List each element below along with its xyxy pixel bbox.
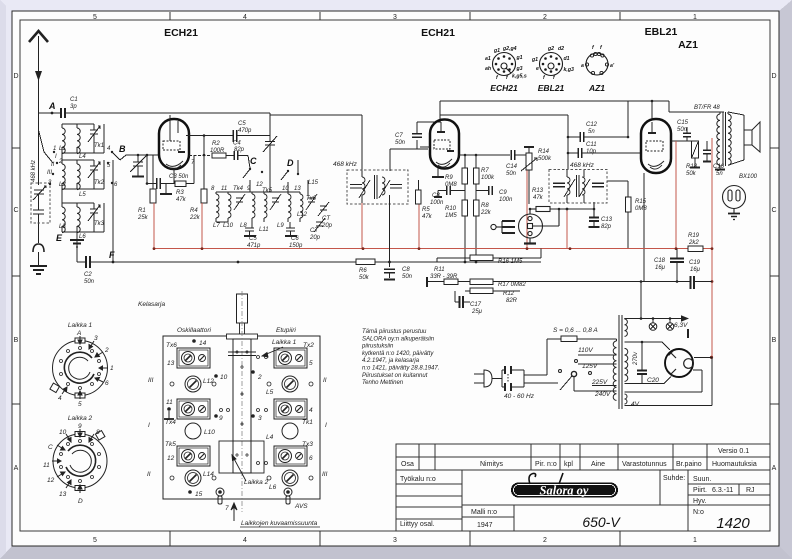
svg-text:kytkentä n:o 1420, päivätty: kytkentä n:o 1420, päivätty (362, 351, 434, 357)
svg-text:468 kHz: 468 kHz (31, 160, 37, 182)
svg-text:4: 4 (243, 537, 247, 544)
svg-text:3: 3 (258, 415, 262, 422)
svg-text:6,3V: 6,3V (674, 322, 688, 329)
svg-text:L9: L9 (277, 223, 284, 229)
svg-text:9: 9 (78, 423, 82, 430)
svg-text:3: 3 (94, 335, 98, 342)
svg-text:A: A (772, 465, 777, 472)
svg-text:5: 5 (93, 537, 97, 544)
svg-text:L14: L14 (203, 471, 214, 478)
svg-text:R4: R4 (190, 208, 198, 214)
svg-text:C5: C5 (249, 236, 257, 242)
svg-text:1947: 1947 (477, 522, 493, 529)
svg-text:II: II (51, 162, 55, 168)
svg-text:II: II (323, 377, 327, 384)
svg-text:k,g3: k,g3 (564, 67, 574, 73)
svg-text:Nimitys: Nimitys (480, 461, 503, 468)
svg-text:25μ: 25μ (471, 309, 483, 315)
svg-text:15: 15 (195, 491, 203, 498)
svg-text:C9: C9 (499, 190, 507, 196)
svg-text:L5: L5 (79, 192, 86, 198)
svg-text:R19: R19 (688, 233, 700, 239)
svg-text:Piirustukset on kuitannut: Piirustukset on kuitannut (362, 373, 428, 379)
svg-text:B: B (14, 337, 19, 344)
svg-text:4.2.1947, ja kelasarja: 4.2.1947, ja kelasarja (362, 358, 420, 364)
svg-text:1M5: 1M5 (445, 213, 457, 219)
svg-text:14: 14 (199, 340, 207, 347)
svg-text:L6: L6 (79, 234, 86, 240)
svg-text:5n: 5n (716, 171, 723, 177)
svg-text:2: 2 (543, 537, 547, 544)
svg-text:40 - 60 Hz: 40 - 60 Hz (504, 393, 535, 400)
svg-text:A: A (48, 101, 56, 111)
svg-text:L4: L4 (266, 434, 274, 441)
svg-text:III: III (47, 170, 52, 176)
svg-text:10: 10 (59, 429, 67, 436)
svg-text:L4: L4 (79, 154, 86, 160)
svg-text:10: 10 (220, 374, 228, 381)
svg-text:C2: C2 (84, 272, 92, 278)
svg-text:5: 5 (309, 360, 313, 367)
svg-text:g2,g4: g2,g4 (502, 46, 517, 52)
svg-text:L1: L1 (59, 146, 66, 152)
svg-text:R9: R9 (445, 175, 453, 181)
svg-text:C16: C16 (713, 164, 725, 170)
svg-text:BX100: BX100 (739, 174, 758, 180)
svg-text:g1: g1 (493, 48, 500, 54)
svg-text:C7: C7 (395, 133, 403, 139)
svg-text:225V: 225V (591, 379, 608, 386)
svg-text:CT: CT (322, 216, 331, 222)
svg-text:1: 1 (53, 146, 56, 152)
svg-text:Varastotunnus: Varastotunnus (622, 461, 667, 468)
svg-text:Oskillaattori: Oskillaattori (177, 327, 212, 334)
svg-text:Laikka 1: Laikka 1 (68, 322, 93, 329)
svg-text:C12: C12 (586, 122, 598, 128)
svg-text:R8: R8 (481, 203, 489, 209)
svg-text:3p: 3p (70, 104, 77, 110)
svg-text:C13: C13 (601, 217, 613, 223)
svg-text:47k: 47k (533, 195, 544, 201)
svg-text:468 kHz: 468 kHz (333, 161, 358, 168)
svg-text:C3 50n: C3 50n (169, 174, 189, 180)
svg-text:C11: C11 (586, 142, 597, 148)
svg-text:Tk1: Tk1 (302, 419, 313, 426)
svg-text:R18: R18 (686, 164, 698, 170)
svg-text:R2: R2 (212, 141, 220, 147)
svg-text:R17 0M82: R17 0M82 (498, 282, 526, 288)
svg-text:R7: R7 (481, 168, 489, 174)
svg-text:4: 4 (58, 395, 62, 402)
svg-text:0M8: 0M8 (635, 206, 647, 212)
svg-text:Suhde:: Suhde: (663, 475, 685, 482)
svg-text:d2: d2 (558, 46, 564, 52)
svg-text:III: III (322, 471, 328, 478)
svg-text:Tx4: Tx4 (165, 419, 176, 426)
svg-text:BT/FR 48: BT/FR 48 (694, 105, 720, 111)
svg-text:2: 2 (257, 374, 262, 381)
svg-text:82p: 82p (601, 224, 612, 230)
svg-text:240V: 240V (594, 391, 611, 398)
svg-text:AVS: AVS (294, 503, 308, 510)
svg-text:12: 12 (47, 477, 55, 484)
svg-text:11: 11 (166, 399, 173, 406)
svg-text:2k2: 2k2 (688, 240, 699, 246)
svg-text:C8: C8 (432, 193, 440, 199)
svg-text:AZ1: AZ1 (678, 39, 698, 51)
svg-text:82p: 82p (234, 147, 245, 153)
svg-text:33R - 39R: 33R - 39R (430, 274, 458, 280)
svg-text:Tx3: Tx3 (302, 441, 313, 448)
svg-text:Tk4: Tk4 (233, 186, 244, 192)
svg-text:ECH21: ECH21 (490, 83, 518, 93)
svg-text:Piirt.: Piirt. (693, 487, 707, 494)
svg-text:D: D (78, 498, 83, 505)
svg-text:d1: d1 (564, 56, 570, 62)
svg-text:C: C (771, 207, 776, 214)
svg-text:B: B (772, 337, 777, 344)
svg-text:13: 13 (59, 491, 67, 498)
svg-text:R10: R10 (445, 206, 457, 212)
svg-text:110V: 110V (578, 347, 593, 354)
svg-text:100n: 100n (499, 197, 513, 203)
svg-text:F: F (109, 250, 115, 260)
svg-text:Työkalu n:o: Työkalu n:o (400, 476, 436, 483)
svg-text:Tk2: Tk2 (94, 180, 105, 186)
svg-text:C: C (250, 156, 257, 166)
svg-text:8: 8 (96, 429, 100, 436)
svg-text:I: I (148, 422, 150, 429)
svg-text:Tk3: Tk3 (94, 221, 105, 227)
svg-text:50n: 50n (402, 274, 413, 280)
svg-text:16μ: 16μ (690, 267, 701, 273)
svg-text:C17: C17 (470, 302, 482, 308)
svg-text:50n: 50n (506, 171, 517, 177)
svg-text:50n: 50n (395, 140, 406, 146)
svg-text:6: 6 (105, 380, 109, 387)
svg-text:82R: 82R (506, 298, 518, 304)
svg-text:g1: g1 (516, 55, 523, 61)
svg-text:SALORA oy:n alkuperäisiin: SALORA oy:n alkuperäisiin (362, 336, 435, 342)
svg-text:270v: 270v (633, 351, 639, 366)
svg-text:7: 7 (225, 505, 229, 512)
svg-text:g2: g2 (547, 46, 554, 52)
svg-text:6.3.-11: 6.3.-11 (712, 487, 733, 494)
svg-text:R16 1M5: R16 1M5 (498, 259, 523, 265)
svg-text:500k: 500k (538, 156, 552, 162)
svg-text:20p: 20p (309, 235, 321, 241)
svg-text:Laikka 2: Laikka 2 (68, 415, 93, 422)
svg-text:13: 13 (167, 360, 175, 367)
svg-text:50k: 50k (686, 171, 697, 177)
svg-text:100k: 100k (481, 175, 495, 181)
svg-text:L2: L2 (59, 182, 66, 188)
svg-text:100R: 100R (210, 148, 225, 154)
svg-text:EBL21: EBL21 (645, 26, 678, 38)
svg-text:1: 1 (693, 14, 697, 21)
svg-text:4: 4 (309, 407, 313, 414)
svg-text:10p: 10p (586, 149, 597, 155)
svg-text:R15: R15 (635, 199, 647, 205)
svg-text:g3: g3 (516, 66, 523, 72)
svg-text:N:o: N:o (693, 509, 704, 516)
svg-text:R6: R6 (359, 268, 367, 274)
svg-text:5: 5 (93, 14, 97, 21)
svg-text:C1: C1 (70, 97, 78, 103)
svg-text:Tk5: Tk5 (165, 441, 176, 448)
svg-text:R14: R14 (538, 149, 550, 155)
svg-text:Huomautuksia: Huomautuksia (712, 461, 757, 468)
svg-text:a1: a1 (485, 56, 491, 62)
svg-text:Laikka 1: Laikka 1 (272, 339, 297, 346)
svg-text:125V: 125V (582, 363, 598, 370)
svg-text:11: 11 (221, 186, 227, 192)
svg-text:650-V: 650-V (582, 514, 621, 530)
svg-text:6: 6 (309, 455, 313, 462)
svg-text:C19: C19 (689, 260, 701, 266)
svg-text:C8: C8 (402, 267, 410, 273)
svg-text:D: D (287, 158, 294, 168)
svg-text:C: C (13, 207, 18, 214)
svg-text:5n: 5n (588, 129, 595, 135)
svg-text:2: 2 (543, 14, 547, 21)
svg-text:Malli n:o: Malli n:o (471, 509, 497, 516)
svg-text:L15: L15 (308, 180, 319, 186)
svg-text:EBL21: EBL21 (538, 83, 565, 93)
svg-text:C15: C15 (677, 120, 689, 126)
svg-text:kpl: kpl (564, 461, 573, 468)
svg-text:C20: C20 (647, 377, 659, 384)
svg-text:Etupiiri: Etupiiri (276, 327, 296, 334)
svg-text:AZ1: AZ1 (588, 83, 605, 93)
svg-text:Versio 0.1: Versio 0.1 (718, 448, 749, 455)
svg-text:13: 13 (294, 186, 301, 192)
svg-text:1: 1 (693, 537, 697, 544)
svg-text:25k: 25k (137, 215, 149, 221)
svg-text:Br.paino: Br.paino (676, 461, 702, 468)
svg-text:L11: L11 (259, 227, 269, 233)
svg-text:C: C (48, 444, 53, 451)
svg-text:1: 1 (110, 365, 114, 372)
svg-text:Pir. n:o: Pir. n:o (535, 461, 557, 468)
svg-text:10: 10 (282, 186, 289, 192)
svg-text:R1: R1 (138, 208, 146, 214)
svg-text:piirustuksiin: piirustuksiin (361, 344, 394, 350)
svg-text:Laikkojen kuvaamissuunta: Laikkojen kuvaamissuunta (241, 520, 318, 527)
svg-text:3: 3 (393, 537, 397, 544)
svg-text:16μ: 16μ (655, 265, 666, 271)
svg-text:C5: C5 (238, 121, 246, 127)
svg-text:12: 12 (167, 455, 175, 462)
svg-text:Tk1: Tk1 (94, 143, 104, 149)
svg-text:A: A (76, 330, 81, 337)
svg-text:470p: 470p (238, 128, 252, 134)
svg-text:22k: 22k (189, 215, 201, 221)
svg-text:S = 0,6 ... 0,8 A: S = 0,6 ... 0,8 A (553, 327, 598, 334)
svg-text:L5: L5 (266, 389, 274, 396)
svg-text:Osa: Osa (401, 461, 414, 468)
svg-text:R5: R5 (422, 207, 430, 213)
svg-text:Tx6: Tx6 (166, 342, 177, 349)
svg-text:n:o 1421, päivätty 28.8.1947.: n:o 1421, päivätty 28.8.1947. (362, 366, 439, 372)
svg-text:1420: 1420 (716, 515, 750, 532)
svg-text:R11: R11 (434, 267, 445, 273)
svg-text:E: E (56, 233, 63, 243)
svg-text:Tx2: Tx2 (303, 342, 314, 349)
svg-text:A: A (14, 465, 19, 472)
svg-text:L3: L3 (59, 224, 66, 230)
svg-text:Tenho Mettinen: Tenho Mettinen (362, 380, 404, 386)
svg-text:C4: C4 (233, 141, 241, 147)
svg-text:47k: 47k (422, 214, 433, 220)
svg-text:L7: L7 (213, 223, 220, 229)
svg-text:R13: R13 (532, 188, 544, 194)
svg-text:47k: 47k (176, 197, 187, 203)
svg-text:II: II (147, 471, 151, 478)
svg-text:B: B (119, 144, 126, 154)
svg-text:468 kHz: 468 kHz (570, 162, 595, 169)
svg-text:50k: 50k (359, 275, 370, 281)
svg-text:5: 5 (78, 401, 82, 408)
svg-text:ECH21: ECH21 (421, 27, 455, 39)
svg-text:D: D (771, 73, 776, 80)
svg-text:Kelasarja: Kelasarja (138, 301, 165, 308)
svg-text:L12: L12 (203, 378, 214, 385)
svg-text:2: 2 (104, 347, 109, 354)
svg-text:Aine: Aine (591, 461, 605, 468)
svg-text:g1: g1 (531, 57, 538, 63)
svg-text:a: a (581, 63, 584, 69)
svg-text:ECH21: ECH21 (164, 27, 198, 39)
svg-text:4V: 4V (631, 401, 640, 408)
svg-text:Liittyy osal.: Liittyy osal. (400, 521, 435, 528)
svg-text:Suun.: Suun. (693, 476, 711, 483)
svg-text:RJ: RJ (746, 487, 755, 494)
svg-text:R3: R3 (176, 190, 184, 196)
svg-text:L6: L6 (269, 484, 277, 491)
svg-text:22k: 22k (480, 210, 492, 216)
svg-text:11: 11 (43, 462, 50, 469)
svg-text:C6: C6 (291, 236, 299, 242)
svg-text:9: 9 (219, 415, 223, 422)
svg-text:ah: ah (485, 66, 491, 72)
svg-text:50n: 50n (677, 127, 688, 133)
svg-text:D: D (13, 73, 18, 80)
svg-text:Hyv.: Hyv. (693, 498, 707, 505)
svg-text:e: e (536, 66, 539, 72)
svg-text:I: I (325, 422, 327, 429)
svg-text:L10: L10 (204, 429, 215, 436)
svg-text:C18: C18 (654, 258, 666, 264)
svg-text:Salora oy: Salora oy (540, 484, 589, 498)
svg-text:Tämä piirustus perustuu: Tämä piirustus perustuu (362, 329, 427, 335)
svg-text:k,g5,s: k,g5,s (512, 74, 527, 80)
svg-text:4: 4 (243, 14, 247, 21)
svg-text:L10: L10 (223, 223, 234, 229)
svg-text:3: 3 (393, 14, 397, 21)
svg-text:C14: C14 (506, 164, 518, 170)
svg-text:III: III (148, 377, 154, 384)
svg-text:R12: R12 (503, 291, 515, 297)
svg-text:50n: 50n (84, 279, 95, 285)
svg-text:100n: 100n (430, 200, 444, 206)
svg-text:0M8: 0M8 (445, 182, 457, 188)
svg-text:Laikka 2: Laikka 2 (244, 479, 269, 486)
